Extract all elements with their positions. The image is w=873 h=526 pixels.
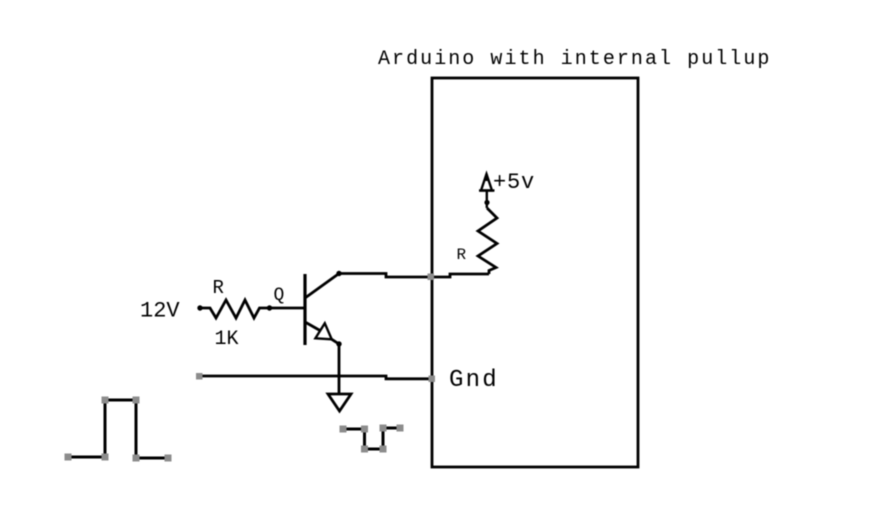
emitter tail <box>332 339 339 344</box>
junction dot base (node Q) <box>267 305 272 310</box>
waveform: input positive pulse <box>68 400 168 458</box>
node handle at box edge (collector wire) <box>428 274 435 281</box>
wire: emitter down to ground <box>338 344 341 394</box>
resistor R (pullup, vertical zigzag) <box>478 208 497 274</box>
wire: collector to pullup resistor bottom <box>339 274 489 278</box>
svg-text:Gnd: Gnd <box>449 367 499 394</box>
svg-text:+5v: +5v <box>493 170 535 195</box>
junction dot emitter <box>336 341 341 346</box>
emitter line <box>305 322 320 331</box>
svg-text:1K: 1K <box>215 328 239 351</box>
svg-text:Arduino with internal pullup: Arduino with internal pullup <box>378 48 771 71</box>
emitter arrowhead <box>315 323 331 339</box>
svg-text:R: R <box>457 246 467 264</box>
junction dot collector <box>336 271 341 276</box>
collector line <box>305 274 339 299</box>
terminal dot 12V <box>197 305 202 310</box>
base bar <box>303 274 306 345</box>
node handle left end of ground rail <box>196 373 203 380</box>
svg-text:Q: Q <box>274 286 285 306</box>
handles for input pulse <box>65 397 172 462</box>
resistor R 1K (horizontal zigzag) with base wire <box>200 300 305 318</box>
transistor Q (NPN) <box>305 274 339 346</box>
node handle Gnd at box edge <box>429 376 436 383</box>
power symbol +5v arrow <box>479 174 495 208</box>
svg-text:R: R <box>213 277 224 299</box>
handles for inverted pulse <box>340 425 404 453</box>
junction dot under +5v arrow <box>484 200 489 205</box>
wire: ground rail left <box>199 376 432 379</box>
Arduino box outline <box>432 78 638 467</box>
svg-text:12V: 12V <box>140 299 180 324</box>
ground symbol <box>328 394 351 411</box>
waveform: inverted pulse <box>343 428 400 449</box>
